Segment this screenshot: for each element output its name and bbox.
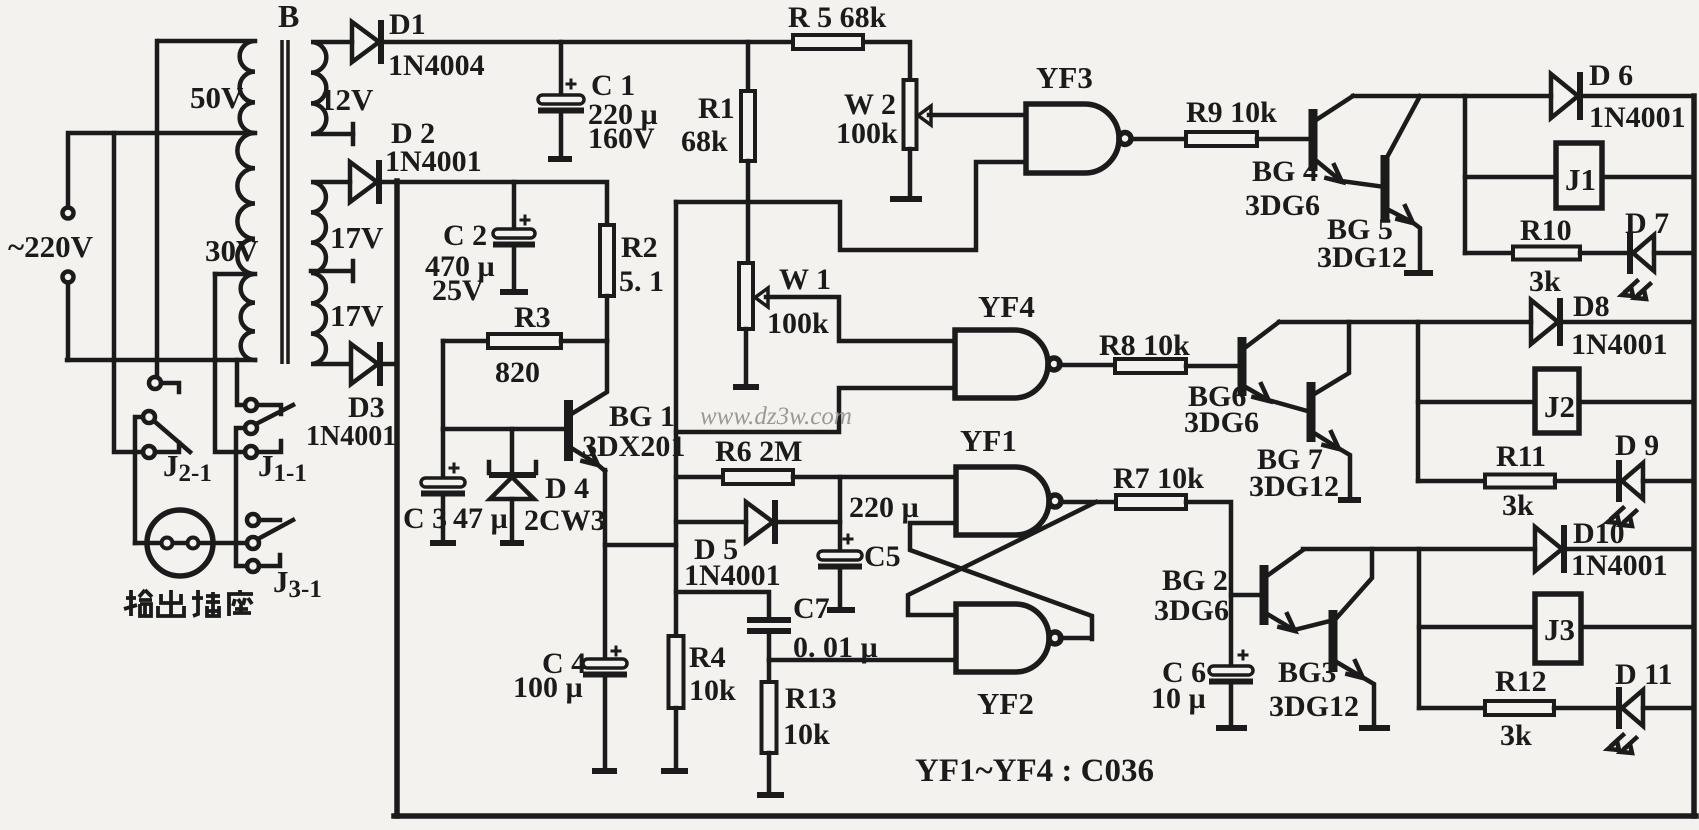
svg-text:J3: J3 xyxy=(1544,612,1575,647)
svg-text:2CW3: 2CW3 xyxy=(524,504,606,537)
svg-text:R9 10k: R9 10k xyxy=(1186,96,1277,129)
svg-text:3DG12: 3DG12 xyxy=(1317,241,1407,274)
wire 220V bottom terminal to neutral rail xyxy=(66,283,71,361)
svg-text:YF1~YF4 : C036: YF1~YF4 : C036 xyxy=(915,753,1154,789)
svg-text:1N4001: 1N4001 xyxy=(385,145,482,178)
resistor R11 3k xyxy=(1418,479,1485,484)
label 输出插座 (output socket) xyxy=(124,590,152,616)
wire D8 line (J2 supply) xyxy=(1279,320,1531,325)
svg-text:3DG12: 3DG12 xyxy=(1269,690,1359,723)
svg-text:BG3: BG3 xyxy=(1278,656,1336,689)
capacitor C4 100u xyxy=(583,659,627,668)
zener diode D4 2CW3 xyxy=(510,429,515,473)
svg-text:C 2: C 2 xyxy=(443,219,487,252)
relay coil J2 xyxy=(1416,322,1421,481)
svg-text:1N4001: 1N4001 xyxy=(1589,101,1686,134)
wire W1 wiper to YF4 input A xyxy=(766,297,955,341)
svg-text:25V: 25V xyxy=(432,274,484,307)
svg-text:10k: 10k xyxy=(689,674,736,707)
wire R3 left to base node xyxy=(441,341,446,429)
capacitor C2 470u 25V xyxy=(512,182,517,229)
transistor BG4 3DG6 xyxy=(1309,109,1318,171)
wire W2 wiper to YF3 input A xyxy=(929,113,1026,118)
wire neutral rail xyxy=(67,358,255,363)
svg-text:BG 4: BG 4 xyxy=(1252,155,1318,188)
svg-text:D 6: D 6 xyxy=(1589,59,1633,92)
17V mid-tap xyxy=(311,261,353,281)
capacitor C6 10u xyxy=(1229,595,1234,666)
wire rail to J1-1 upper contact xyxy=(237,360,245,405)
svg-text:R8 10k: R8 10k xyxy=(1099,329,1190,362)
op-amp gate YF1 C036 xyxy=(956,467,1049,535)
resistor R5 68k xyxy=(793,35,863,49)
resistor R8 10k xyxy=(1115,359,1186,373)
svg-text:68k: 68k xyxy=(681,125,728,158)
svg-text:B: B xyxy=(278,0,299,34)
svg-text:820: 820 xyxy=(495,356,540,389)
output socket 输出插座 xyxy=(147,510,213,576)
op-amp gate YF4 C036 xyxy=(955,330,1048,398)
diode D2 1N4001 xyxy=(350,162,377,202)
svg-text:12V: 12V xyxy=(320,82,374,117)
svg-text:0. 01 µ: 0. 01 µ xyxy=(793,631,878,664)
svg-text:J2: J2 xyxy=(1544,389,1575,424)
svg-text:5. 1: 5. 1 xyxy=(619,265,664,298)
wire winding top to J2-1 hook contact xyxy=(155,41,160,377)
wire bus to C7 xyxy=(676,592,769,617)
svg-text:R4: R4 xyxy=(689,641,726,674)
svg-text:www.dz3w.com: www.dz3w.com xyxy=(700,403,852,430)
svg-text:BG 1: BG 1 xyxy=(609,400,675,433)
svg-text:D 7: D 7 xyxy=(1625,207,1669,240)
resistor R1 68k xyxy=(746,42,751,91)
node ~220V terminal top xyxy=(63,208,74,219)
svg-text:R3: R3 xyxy=(514,301,551,334)
wire D10 line (J3 supply) xyxy=(1303,547,1535,552)
wire D6 line (J1 supply) xyxy=(1353,94,1551,99)
relay coil J1 xyxy=(1463,96,1468,253)
wire YF3 output xyxy=(1131,137,1186,142)
wire main vertical node bus xyxy=(674,202,679,636)
op-amp gate YF2 C036 xyxy=(956,604,1049,672)
op-amp gate YF3 C036 xyxy=(1026,104,1119,173)
svg-text:R13: R13 xyxy=(785,682,837,715)
transformer core xyxy=(282,40,288,364)
wire BG1 emitter down to C4 xyxy=(603,470,608,659)
svg-text:220 µ: 220 µ xyxy=(849,491,919,524)
resistor R6 2M xyxy=(676,475,723,480)
svg-text:R2: R2 xyxy=(621,231,658,264)
svg-text:10k: 10k xyxy=(783,718,830,751)
wire YF4 output xyxy=(1059,363,1115,368)
svg-text:47 µ: 47 µ xyxy=(453,502,508,535)
wire YF1/YF2 latch cross-coupling xyxy=(910,523,1092,639)
svg-text:17V: 17V xyxy=(330,298,384,333)
resistor R3 820 xyxy=(443,339,488,344)
transistor BG5 3DG12 xyxy=(1381,155,1390,220)
wire 220V top terminal to 50V tap xyxy=(68,133,255,208)
svg-text:R7 10k: R7 10k xyxy=(1113,462,1204,495)
wire neutral rail crossing (none) 30V tap to J1-1 lower contact xyxy=(215,274,245,452)
resistor R7 10k xyxy=(1116,495,1186,509)
svg-text:D 4: D 4 xyxy=(545,472,589,505)
transistor BG7 3DG12 xyxy=(1307,382,1316,442)
transistor BG3 3DG12 xyxy=(1329,610,1338,672)
wire node bus to YF4 input B xyxy=(676,388,955,432)
potentiometer W2 100k xyxy=(904,80,917,149)
svg-text:3k: 3k xyxy=(1502,489,1534,522)
svg-text:3DG6: 3DG6 xyxy=(1245,189,1320,222)
capacitor C3 47u xyxy=(441,429,446,478)
svg-text:17V: 17V xyxy=(330,220,384,255)
svg-text:C5: C5 xyxy=(864,540,901,573)
potentiometer W1 100k xyxy=(739,263,753,329)
svg-text:3DG6: 3DG6 xyxy=(1154,594,1229,627)
relay contact J1-1 xyxy=(245,399,257,411)
svg-text:50V: 50V xyxy=(190,80,244,115)
resistor R4 10k xyxy=(669,636,684,708)
wire +160V top rail xyxy=(381,40,793,45)
wire D3 to box edge xyxy=(382,362,397,367)
12V winding end tick xyxy=(351,124,356,144)
relay coil J3 xyxy=(1417,549,1422,708)
LED D11 xyxy=(1616,687,1622,729)
svg-text:YF1: YF1 xyxy=(960,423,1017,458)
svg-text:100k: 100k xyxy=(767,307,829,340)
svg-text:10 µ: 10 µ xyxy=(1151,682,1206,715)
svg-text:YF2: YF2 xyxy=(977,686,1034,721)
wire R1 bottom node to YF3 input B xyxy=(676,162,1026,250)
diode D8 1N4001 xyxy=(1531,300,1558,344)
svg-text:YF4: YF4 xyxy=(978,289,1035,324)
wire BG1 base xyxy=(443,427,564,432)
resistor R10 3k xyxy=(1465,251,1513,256)
svg-text:J3-1: J3-1 xyxy=(273,564,322,603)
svg-text:C 3: C 3 xyxy=(403,502,447,535)
svg-text:J1: J1 xyxy=(1565,162,1596,197)
svg-text:W 1: W 1 xyxy=(779,263,831,296)
svg-text:R11: R11 xyxy=(1496,440,1546,473)
transistor BG2 3DG6 xyxy=(1260,565,1269,625)
svg-text:3k: 3k xyxy=(1529,265,1561,298)
wire D2 output rail xyxy=(378,182,607,225)
capacitor C5 220u xyxy=(838,477,843,551)
resistor R13 10k xyxy=(767,660,772,682)
svg-text:YF3: YF3 xyxy=(1036,60,1093,95)
svg-text:1N4001: 1N4001 xyxy=(306,421,396,452)
diode D10 1N4001 xyxy=(1535,527,1562,571)
svg-text:J2-1: J2-1 xyxy=(163,448,212,487)
svg-text:100 µ: 100 µ xyxy=(513,671,583,704)
capacitor C7 0.01u xyxy=(747,620,791,631)
svg-text:R1: R1 xyxy=(698,92,735,125)
svg-text:1N4004: 1N4004 xyxy=(388,49,485,82)
relay contact J2-1 xyxy=(149,377,161,389)
LED D7 xyxy=(1627,232,1633,274)
wire socket line xyxy=(135,541,247,546)
svg-text:3DX201: 3DX201 xyxy=(582,430,685,463)
svg-text:3k: 3k xyxy=(1500,719,1532,752)
svg-text:D10: D10 xyxy=(1573,517,1625,550)
resistor R9 10k xyxy=(1186,132,1257,146)
svg-text:D8: D8 xyxy=(1573,290,1610,323)
svg-text:1N4001: 1N4001 xyxy=(1571,328,1668,361)
svg-text:100k: 100k xyxy=(836,117,898,150)
diode D6 1N4001 xyxy=(1551,74,1578,118)
wire R7 to BG2 base xyxy=(1186,502,1259,595)
wire left supply rail (box left edge) xyxy=(394,181,400,816)
svg-text:R10: R10 xyxy=(1520,214,1572,247)
node ~220V terminal bottom xyxy=(63,272,74,283)
wire C7/R13 node to YF2 input B xyxy=(769,658,956,663)
resistor R12 3k xyxy=(1419,706,1485,711)
svg-text:D 11: D 11 xyxy=(1615,658,1673,691)
svg-text:D1: D1 xyxy=(389,8,426,41)
wire bottom ground rail xyxy=(394,813,1696,819)
wire YF1 output xyxy=(1062,500,1116,505)
diode D3 1N4001 xyxy=(351,344,378,384)
svg-text:3DG6: 3DG6 xyxy=(1184,406,1259,439)
wire R5 to W2 top xyxy=(863,42,910,80)
transformer secondary 17V+17V winding xyxy=(311,182,350,364)
transformer B primary winding (50V/30V taps) xyxy=(159,41,255,360)
svg-text:160V: 160V xyxy=(588,122,655,155)
svg-text:R12: R12 xyxy=(1495,665,1547,698)
svg-text:BG 2: BG 2 xyxy=(1162,564,1228,597)
wire emitter node to bus xyxy=(605,543,676,548)
svg-text:1N4001: 1N4001 xyxy=(1571,549,1668,582)
diode D5 1N4001 xyxy=(676,520,746,525)
svg-text:30V: 30V xyxy=(205,233,259,268)
transformer secondary 12V winding xyxy=(311,42,353,134)
svg-text:R6 2M: R6 2M xyxy=(715,435,802,468)
LED D9 xyxy=(1616,460,1622,502)
transistor BG1 3DX201 xyxy=(564,400,573,461)
relay contact J3-1 xyxy=(247,514,259,526)
transistor BG6 3DG6 xyxy=(1238,337,1247,396)
svg-text:C7: C7 xyxy=(793,592,830,625)
diode D1 1N4004 xyxy=(352,22,379,62)
svg-text:3DG12: 3DG12 xyxy=(1249,470,1339,503)
wire R6 to YF1 input A xyxy=(793,475,956,480)
svg-text:~220V: ~220V xyxy=(8,229,94,264)
resistor R2 5.1 xyxy=(600,225,614,296)
wire live to J2-1 lower contact xyxy=(114,133,143,452)
svg-text:D3: D3 xyxy=(348,391,385,424)
svg-text:R 5 68k: R 5 68k xyxy=(788,1,887,34)
capacitor C1 220u 160V xyxy=(559,42,564,95)
wire right supply rail xyxy=(1691,96,1697,816)
svg-text:D 9: D 9 xyxy=(1615,429,1659,462)
svg-text:1N4001: 1N4001 xyxy=(684,559,781,592)
